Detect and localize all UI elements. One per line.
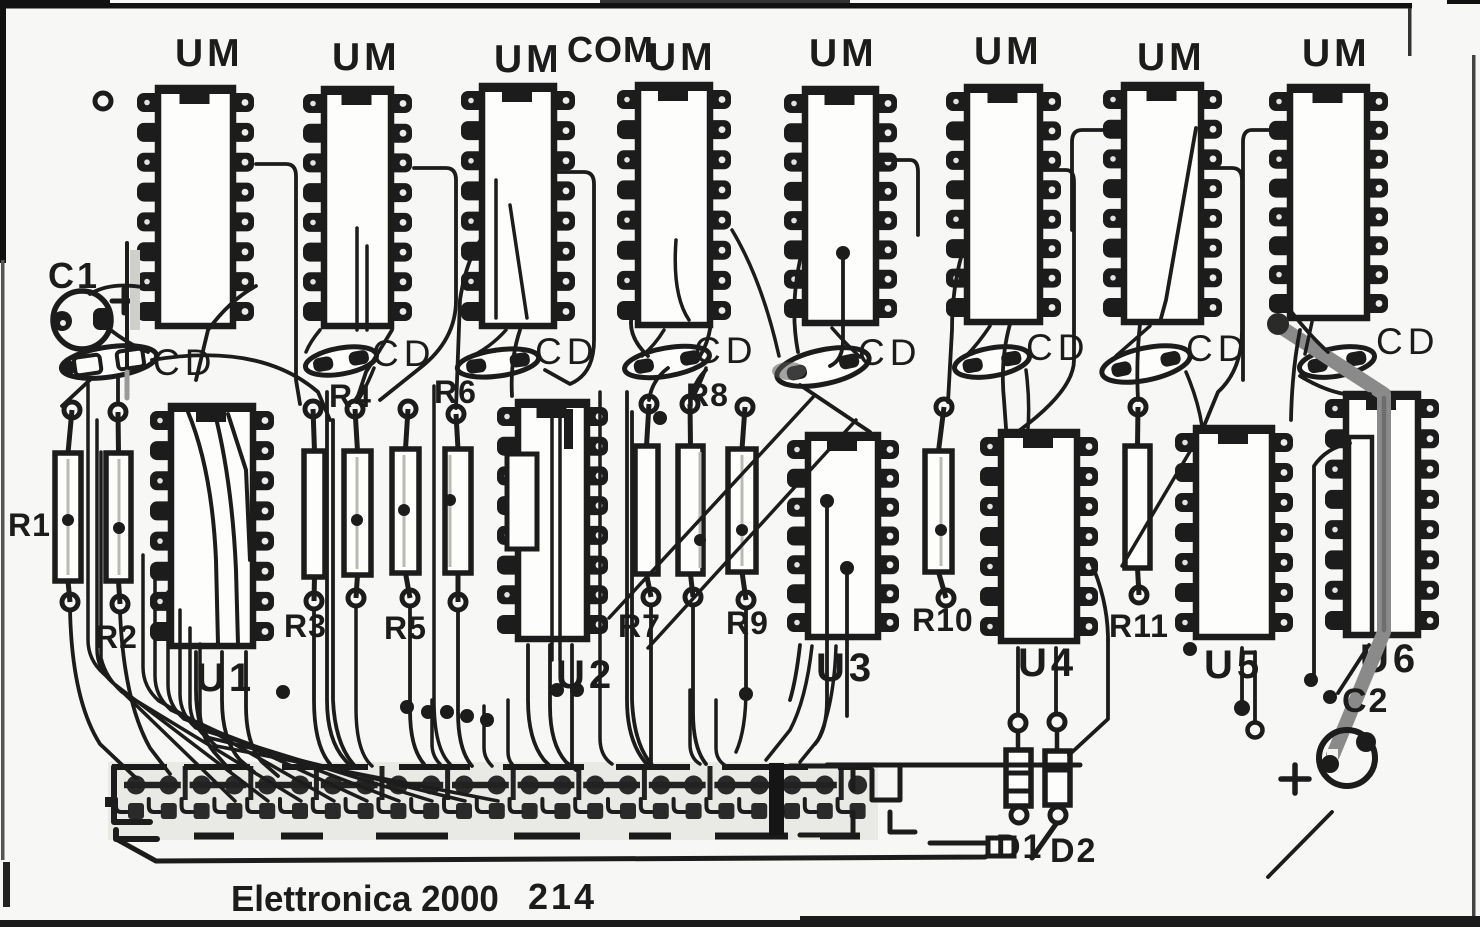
IC UM4 (top row DIP-16): [617, 85, 731, 325]
wire CD1 to R2: [116, 376, 120, 404]
wire UM6 left down: [948, 238, 967, 402]
junction dot 1: [820, 494, 834, 508]
wire fan 1: [88, 384, 235, 801]
wire CD4 right to R8 top: [693, 368, 706, 398]
label C1: [48, 255, 100, 296]
svg-text:R10: R10: [912, 602, 974, 638]
resistor R11: [1125, 399, 1150, 603]
wire UM8 pin drop: [1291, 330, 1300, 420]
wire CD5 to U3 top: [800, 385, 870, 432]
wire vertical pair a: [327, 392, 352, 768]
jumper CD7: [1099, 339, 1194, 389]
junction dot 8: [460, 709, 474, 723]
label R6: [434, 374, 477, 410]
label CD for jumper CD7: [1186, 328, 1249, 369]
svg-text:UM: UM: [175, 32, 244, 75]
wire diagonal to D2 bottom: [1032, 824, 1056, 858]
junction dot 7: [440, 705, 454, 719]
resistor R9: [728, 399, 756, 608]
label UM for IC UM7: [1137, 36, 1206, 79]
label R3: [284, 608, 327, 644]
IC U2: [497, 402, 608, 639]
wire R7 bottom down: [649, 605, 653, 764]
wire fan 5: [155, 575, 367, 801]
wire horizontal bus to D1/D2: [827, 763, 1080, 768]
svg-text:CD: CD: [153, 342, 216, 383]
junction dot 2: [840, 561, 854, 575]
label CD for jumper CD2: [372, 333, 435, 374]
label R8: [686, 377, 729, 413]
capacitor C2: [1319, 730, 1376, 786]
jumper CD4: [622, 341, 712, 384]
wire UM5 pin to CD5: [794, 240, 805, 352]
wire CD1 left to R1: [62, 378, 92, 406]
svg-text:CD: CD: [1026, 327, 1089, 368]
label R10: [912, 602, 974, 638]
wire U5 bottom 1: [1240, 648, 1244, 700]
caption Elettronica 2000: [231, 879, 499, 920]
label CD for jumper CD5: [858, 332, 921, 373]
svg-text:214: 214: [528, 876, 597, 917]
label UM for IC UM8: [1302, 32, 1371, 75]
label U5: [1204, 643, 1263, 687]
wire inside UM4: [675, 240, 689, 320]
label COM (common net): [567, 29, 654, 70]
svg-text:UM: UM: [648, 36, 717, 79]
wire UM4 right to CD5 left: [732, 230, 779, 356]
IC U3: [787, 435, 899, 637]
wire U3 feed 2: [800, 646, 836, 762]
label U4: [1018, 641, 1077, 685]
wire diagonal B: [648, 420, 856, 648]
label C2: [1342, 682, 1389, 720]
pad U5 wire end 2: [1248, 723, 1263, 738]
junction dot 9: [480, 713, 494, 727]
junction dot 3: [739, 687, 753, 701]
wire UM7 to R11 CD7: [1137, 324, 1140, 400]
svg-text:CD: CD: [372, 333, 435, 374]
jumper CD8: [1297, 342, 1377, 383]
label U6: [1360, 637, 1419, 681]
wire drop x690: [690, 690, 700, 764]
wire UM3 to U2: [512, 330, 520, 396]
wire diagonal C: [1122, 448, 1192, 566]
wire vertical by C1: [125, 243, 129, 398]
resistor R7: [635, 396, 659, 605]
svg-text:CD: CD: [1376, 321, 1439, 362]
wire fan 3: [101, 452, 301, 801]
wire UM6 right pin to R10: [1020, 170, 1074, 430]
wire inside UM3 a: [494, 180, 498, 318]
jumper CD1: [57, 340, 158, 383]
svg-text:C1: C1: [48, 255, 100, 296]
junction dot 10: [550, 683, 564, 697]
svg-text:R5: R5: [384, 610, 427, 646]
label R1: [8, 507, 51, 543]
wire drop x484: [484, 706, 492, 766]
svg-text:R11: R11: [1109, 608, 1169, 644]
IC UM3 (top row DIP-16): [461, 86, 575, 326]
wire inside UM2 a: [355, 228, 359, 330]
resistor R8: [678, 396, 706, 605]
wire UM2 pin to R4: [380, 168, 456, 400]
svg-text:R1: R1: [8, 507, 51, 543]
wire fan 7: [180, 610, 432, 801]
label UM for IC UM4: [648, 36, 717, 79]
wire second bottom line: [930, 841, 988, 846]
wire UM7 left pin wire: [1072, 130, 1124, 230]
wire UM3 to R6 area: [456, 238, 482, 408]
label CD for jumper CD4: [694, 330, 757, 371]
wire UM8 to CD8: [1290, 310, 1328, 352]
plus mark of C2: [1281, 765, 1309, 793]
wire R9 bottom down: [744, 608, 748, 688]
wire U5 bottom 2: [1253, 652, 1257, 722]
IC UM6 (top row DIP-16): [946, 87, 1061, 322]
svg-text:UM: UM: [1302, 32, 1371, 75]
label D1: [996, 828, 1043, 866]
svg-text:COM: COM: [567, 29, 654, 70]
label CD for jumper CD6: [1026, 327, 1089, 368]
wire U3 via 1 down: [815, 508, 827, 744]
label UM for IC UM6: [974, 30, 1043, 73]
wire R4 bottom down: [356, 606, 372, 766]
resistor R6: [444, 406, 471, 610]
wire drop x508: [508, 700, 516, 768]
wire fan 2: [97, 420, 268, 801]
svg-text:UM: UM: [1137, 36, 1206, 79]
label R2: [95, 619, 138, 655]
label CD for jumper CD3: [535, 331, 598, 372]
plus mark of C1: [112, 289, 136, 313]
wire CD1 right to U1: [152, 355, 330, 420]
svg-text:UM: UM: [332, 36, 401, 79]
resistor R2: [106, 404, 131, 612]
wire UM4 bottom to CD4 left: [642, 330, 664, 356]
wire UM4 left pin to oval: [631, 300, 648, 356]
wire UM4 down long: [627, 392, 652, 768]
wire UM1 pin lower: [196, 286, 256, 380]
diode D1: [1006, 715, 1031, 823]
wire vertical pair b: [333, 420, 355, 766]
wire CD6 right to U4 top: [1026, 370, 1029, 428]
wire R2 bottom: [120, 612, 170, 774]
junction dot 15: [276, 685, 290, 699]
wire UM4 right pin to oval: [700, 290, 712, 356]
wire UM2 lower pins: [356, 330, 392, 402]
wire R7 top to UM4: [649, 368, 668, 400]
IC UM2 (top row DIP-16): [303, 89, 412, 326]
wire fan 4: [143, 555, 334, 801]
svg-text:U2: U2: [556, 653, 615, 697]
label U1: [196, 656, 255, 700]
label D2: [1050, 832, 1097, 870]
IC UM1 (top row DIP-16): [137, 88, 254, 326]
wire thick trace through U6 to C2: [1267, 313, 1384, 760]
label R9: [726, 605, 769, 641]
pad U5 wire end 1: [1234, 700, 1250, 716]
wire UM4 down long2: [632, 412, 655, 768]
wire UM7 inner trace: [1160, 128, 1196, 322]
diode D2: [1045, 714, 1070, 823]
resistor R3: [304, 401, 325, 609]
connector strip (bottom edge pads): [105, 763, 915, 839]
wire long vertical x600: [600, 392, 612, 764]
wire left of R6 vertical: [434, 386, 450, 764]
svg-text:UM: UM: [809, 32, 878, 75]
junction dot 13: [836, 246, 850, 260]
label UM for IC UM5: [809, 32, 878, 75]
wire U1 bottoms 2: [222, 652, 254, 772]
wire UM5 inner trace: [830, 256, 843, 366]
wire UM3 right pin down: [545, 172, 594, 384]
label UM for IC UM1: [175, 32, 244, 75]
wire CD7 right to U5 top: [1186, 372, 1202, 426]
wire UM7 right down to U5: [1201, 168, 1242, 426]
jumper CD5: [773, 341, 872, 394]
IC U5: [1175, 428, 1293, 637]
wire U3 pins down: [790, 645, 800, 700]
wire R8 top: [690, 370, 706, 400]
wire inside UM2 b: [365, 246, 369, 330]
wire inside U2 b: [558, 415, 562, 660]
wire fan 8: [190, 628, 465, 801]
wire U1 bottoms 1: [196, 652, 230, 770]
wire U4 to D1: [1016, 648, 1020, 715]
label CD for jumper CD8: [1376, 321, 1439, 362]
junction dot 14: [1183, 642, 1197, 656]
junction dot 11: [570, 683, 584, 697]
scan smudge behind connector: [108, 762, 878, 840]
svg-text:R3: R3: [284, 608, 327, 644]
svg-text:Elettronica 2000: Elettronica 2000: [231, 879, 499, 920]
IC UM5 (top row DIP-16): [784, 89, 897, 323]
wire U4 area curve: [1090, 560, 1108, 640]
wire R6 bottom down: [458, 610, 472, 766]
wire R3 bottom down: [314, 609, 330, 764]
wire fan 6: [168, 592, 399, 801]
svg-text:UM: UM: [974, 30, 1043, 73]
wire C2 to U6 diag: [1338, 645, 1369, 693]
wire UM3 bottom to CD3 left: [468, 330, 506, 358]
label R5: [384, 610, 427, 646]
label R4: [329, 378, 372, 414]
wire R8 bottom down: [693, 605, 706, 764]
junction dot 16: [1323, 690, 1337, 704]
junction dot 6: [421, 705, 435, 719]
wire inside U2 a: [550, 415, 554, 660]
wire CD2 right to R4 top: [357, 368, 374, 402]
svg-text:C2: C2: [1342, 682, 1389, 720]
wire U3 feed 1: [766, 646, 812, 760]
wire UM6 bottom to CD6 left: [966, 326, 990, 356]
label UM for IC UM3: [494, 38, 563, 81]
wire diagonal A: [609, 395, 815, 618]
wire inside UM3 b: [510, 205, 527, 318]
svg-text:D1: D1: [996, 828, 1043, 866]
wire UM1 pin to U1: [256, 164, 300, 404]
label UM for IC UM2: [332, 36, 401, 79]
IC UM7 (top row DIP-16): [1103, 85, 1222, 322]
wire UM2 stub to CD2: [306, 330, 320, 352]
label U2: [556, 653, 615, 697]
svg-text:UM: UM: [494, 38, 563, 81]
svg-text:CD: CD: [858, 332, 921, 373]
wire under C2 diagonal: [1268, 812, 1332, 877]
IC U1: [150, 406, 274, 646]
wire U2 bottoms 3: [570, 645, 574, 766]
wire UM5 bottom to CD5 right: [832, 328, 860, 357]
scan smudge near UM1 pins: [130, 250, 140, 330]
wire drop x432: [432, 700, 440, 764]
IC U4: [980, 432, 1098, 641]
wire UM8 bottom to CD8 left: [1305, 322, 1312, 354]
svg-text:D2: D2: [1050, 832, 1097, 870]
wire R1 bottom: [70, 610, 136, 778]
wire U4 to D2: [1054, 648, 1058, 714]
wire bottom bus line: [156, 845, 1011, 861]
resistor R5: [392, 401, 419, 606]
wire U2 bottoms 1: [528, 645, 552, 768]
label R11: [1109, 608, 1169, 644]
fiducial hole top-left: [95, 93, 111, 109]
svg-text:U4: U4: [1018, 641, 1077, 685]
jumper CD2: [303, 342, 378, 380]
pad at D1 bottom: [988, 838, 1014, 856]
IC U6: [1325, 394, 1439, 635]
wire drop x716: [716, 700, 726, 766]
wire U3 via 2 down: [845, 575, 849, 716]
wire UM8 left pin H: [1243, 130, 1290, 380]
wire R9 to connector: [736, 688, 746, 752]
resistor R4: [344, 401, 371, 606]
wire left end diagonal: [118, 840, 156, 861]
label R7: [618, 608, 661, 644]
resistor R1: [55, 402, 81, 610]
junction dot 12: [653, 411, 667, 425]
wire C1 to UM1: [90, 286, 142, 294]
jumper CD3: [456, 344, 541, 381]
caption 214: [528, 876, 597, 917]
wire R5 bottom down: [410, 606, 424, 764]
wire UM5 right down: [876, 160, 918, 235]
wire U1 bottoms 3: [246, 652, 278, 776]
IC UM8 (top row DIP-16): [1269, 87, 1388, 318]
resistor R10: [925, 399, 954, 606]
wire U6 inner hook: [1314, 443, 1350, 676]
capacitor C1: [52, 291, 113, 349]
wire U2 bottoms 2: [550, 645, 576, 770]
label CD for jumper CD1: [153, 342, 216, 383]
wire fan 9: [200, 644, 498, 801]
wire CD8 cross: [1300, 376, 1370, 395]
wire C1 blob to CD1: [108, 328, 148, 352]
junction dot 5: [400, 700, 414, 714]
wire U4 right to D2: [1069, 640, 1108, 755]
wire UM7 bottom to CD7 left: [1116, 326, 1150, 356]
scan smudge near jumper CD5: [772, 362, 806, 380]
label U3: [816, 646, 875, 690]
wire UM6 to U4: [1003, 324, 1010, 428]
junction dot 4: [1304, 673, 1318, 687]
jumper CD6: [952, 342, 1032, 383]
